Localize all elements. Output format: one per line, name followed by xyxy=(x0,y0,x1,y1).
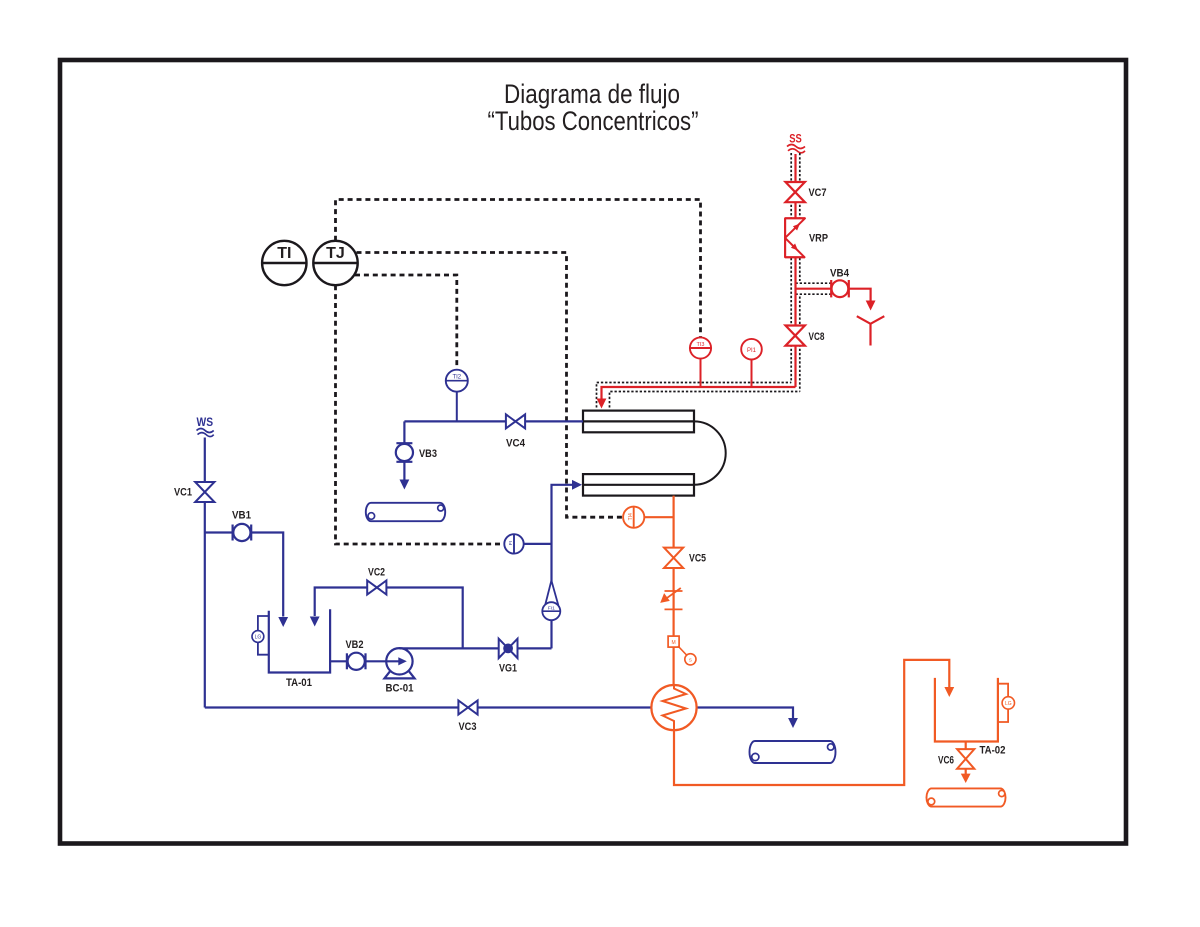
wire tank to VB2 xyxy=(330,660,347,662)
arrow into tank TA-01 xyxy=(278,617,288,627)
fine dotted trace pair to VB4 xyxy=(796,283,832,294)
WS break squiggle xyxy=(197,429,214,433)
valve VC8 xyxy=(786,326,805,346)
SS break squiggle xyxy=(787,145,805,149)
svg-text:PI1: PI1 xyxy=(747,348,757,354)
drain Y symbol xyxy=(857,316,885,345)
heat exchanger bottom tube shell xyxy=(583,474,694,496)
arrow blue drain end xyxy=(788,718,798,728)
svg-text:VRP: VRP xyxy=(809,233,828,245)
heat exchanger top tube inner line xyxy=(583,420,694,422)
spool piece blue outlet xyxy=(750,741,836,763)
valve VG1 xyxy=(499,639,518,658)
svg-text:TA-02: TA-02 xyxy=(980,745,1006,757)
wire FI to riser xyxy=(524,543,552,545)
svg-text:VC4: VC4 xyxy=(506,438,526,450)
wire red SS vertical upper xyxy=(794,154,796,218)
wire red steam header to exchanger xyxy=(602,387,796,399)
wire red SS vertical lower xyxy=(794,258,796,388)
level gauge LG bracket on TA-01 xyxy=(258,616,269,655)
svg-text:LG: LG xyxy=(255,635,262,641)
svg-text:FI1: FI1 xyxy=(548,606,555,612)
heat exchanger U-bend xyxy=(694,421,726,484)
rotameter funnel xyxy=(545,581,552,607)
wire down to VB3 xyxy=(403,421,405,443)
level gauge LG bracket on TA-02 xyxy=(998,684,1008,722)
instrument LG xyxy=(252,631,264,643)
fine dotted trace left of SS line xyxy=(790,153,792,383)
arrow red down to drain xyxy=(866,301,876,311)
instrument LG2 xyxy=(1002,697,1014,709)
instrument TJ xyxy=(313,241,357,285)
instrument TI2 stem xyxy=(456,392,458,422)
wire pump discharge to VG1 xyxy=(399,647,498,649)
svg-text:VB2: VB2 xyxy=(346,639,364,651)
valve VC5 xyxy=(664,548,683,568)
wire VG1 to riser xyxy=(518,647,552,649)
wire suction arrow into pump xyxy=(366,660,401,662)
svg-text:TA-01: TA-01 xyxy=(286,677,312,689)
wire condensate drop line xyxy=(672,496,674,686)
svg-text:VC7: VC7 xyxy=(809,187,827,199)
wire branch to VB1 xyxy=(205,531,233,533)
valve VB1 xyxy=(232,525,234,541)
svg-text:VC6: VC6 xyxy=(938,755,954,767)
wire VB3 drain xyxy=(403,462,405,480)
valve VB4 xyxy=(831,280,849,297)
svg-text:VC2: VC2 xyxy=(368,567,385,579)
wire dashed TJ-top to TI3 xyxy=(336,200,701,339)
heat exchanger bottom tube inner line xyxy=(583,484,694,486)
svg-text:Diagrama de flujo: Diagrama de flujo xyxy=(504,79,680,109)
wire red tee to VB4 xyxy=(796,288,832,290)
wire red VB4 to drain xyxy=(849,289,871,302)
tank TA-01 xyxy=(269,609,330,672)
arrow VC6 drain xyxy=(961,774,971,783)
instrument FI xyxy=(504,534,523,553)
valve VC3 xyxy=(458,701,477,715)
wire VC6 drain xyxy=(965,769,967,777)
instrument PI1 stem xyxy=(751,360,753,388)
svg-text:“Tubos Concentricos”: “Tubos Concentricos” xyxy=(488,106,699,136)
svg-text:TI: TI xyxy=(277,245,291,262)
arrow into bottom tube xyxy=(572,480,582,490)
valve VC6 xyxy=(957,749,974,769)
wire VB1 to tank TA-01 xyxy=(251,533,283,617)
svg-text:SS: SS xyxy=(789,132,802,146)
instrument TI3 stem xyxy=(700,359,702,388)
svg-text:VB1: VB1 xyxy=(232,510,251,522)
svg-text:VC8: VC8 xyxy=(809,331,825,343)
valve VB2 xyxy=(346,653,348,669)
wire main cooling line VC3 xyxy=(205,706,652,708)
instrument TI2 xyxy=(446,370,468,392)
instrument PI1 xyxy=(741,339,762,360)
heater circle with coil xyxy=(651,685,696,730)
svg-text:FI: FI xyxy=(508,541,514,545)
svg-text:WS: WS xyxy=(197,415,214,429)
solenoid box xyxy=(668,636,679,647)
pilot circle xyxy=(685,654,696,665)
arrow VB3 drain xyxy=(400,480,410,490)
instrument TI xyxy=(262,241,306,285)
wire dashed TJ-right to TI4 xyxy=(357,253,623,518)
svg-text:M: M xyxy=(672,640,676,646)
svg-text:TI3: TI3 xyxy=(697,342,705,348)
instrument TI3 xyxy=(690,337,711,358)
tank TA-02 xyxy=(935,678,998,742)
wire dashed TJ-bottom to FI xyxy=(336,285,505,544)
valve VC1 xyxy=(195,482,214,502)
wire dashed TJ-lowright to TI2 xyxy=(355,275,457,369)
svg-text:TJ: TJ xyxy=(326,245,345,262)
svg-text:VC1: VC1 xyxy=(174,487,192,499)
pump BC-01 xyxy=(386,648,412,674)
wire condensate to TA-02 xyxy=(674,660,949,785)
svg-text:VB3: VB3 xyxy=(419,448,437,460)
svg-text:VG1: VG1 xyxy=(499,663,517,675)
svg-text:S: S xyxy=(689,657,692,662)
wire VC1 down to VC3 line xyxy=(204,502,206,708)
wire tank outlet xyxy=(965,742,967,750)
arrow into tank TA-02 xyxy=(944,687,954,697)
valve VB3 xyxy=(396,442,412,444)
valve VC2 xyxy=(367,581,386,595)
valve VC4 xyxy=(506,414,525,428)
border frame xyxy=(60,60,1126,844)
heat exchanger top tube shell xyxy=(583,411,694,433)
fine dotted trace right of SS line xyxy=(799,153,801,392)
wire WS down to VC1 xyxy=(204,438,206,483)
VRP diagonal arrowheads xyxy=(793,224,800,231)
svg-text:TI2: TI2 xyxy=(452,375,461,381)
regulator symbol ticks and arrow xyxy=(665,590,683,592)
valve VRP pressure regulator xyxy=(785,218,805,257)
svg-text:TI4: TI4 xyxy=(628,513,634,520)
wire VC2 recirculation line xyxy=(315,588,463,649)
solenoid link to pilot xyxy=(678,646,687,656)
fine dotted inner run to exchanger xyxy=(610,392,800,408)
wire after heater to drain xyxy=(697,708,794,719)
wire riser up to exchanger xyxy=(552,485,573,649)
instrument FI1 rotameter bulb xyxy=(542,602,560,620)
valve VC7 xyxy=(786,182,805,202)
fine dotted outer run to exchanger xyxy=(597,383,792,408)
arrow into tank from VC2 xyxy=(310,617,320,627)
spool piece orange outlet xyxy=(926,788,1005,806)
svg-text:LG: LG xyxy=(1005,701,1012,707)
svg-text:VC5: VC5 xyxy=(689,553,706,565)
wire TI4 to condensate drop xyxy=(644,516,673,518)
spool piece below VB3 xyxy=(366,503,445,521)
wire top feed line to exchanger xyxy=(404,420,583,422)
arrow red into exchanger xyxy=(597,399,607,409)
svg-text:BC-01: BC-01 xyxy=(386,683,414,695)
instrument TI4 xyxy=(623,507,644,528)
svg-text:VB4: VB4 xyxy=(830,268,850,280)
svg-text:VC3: VC3 xyxy=(459,721,477,733)
